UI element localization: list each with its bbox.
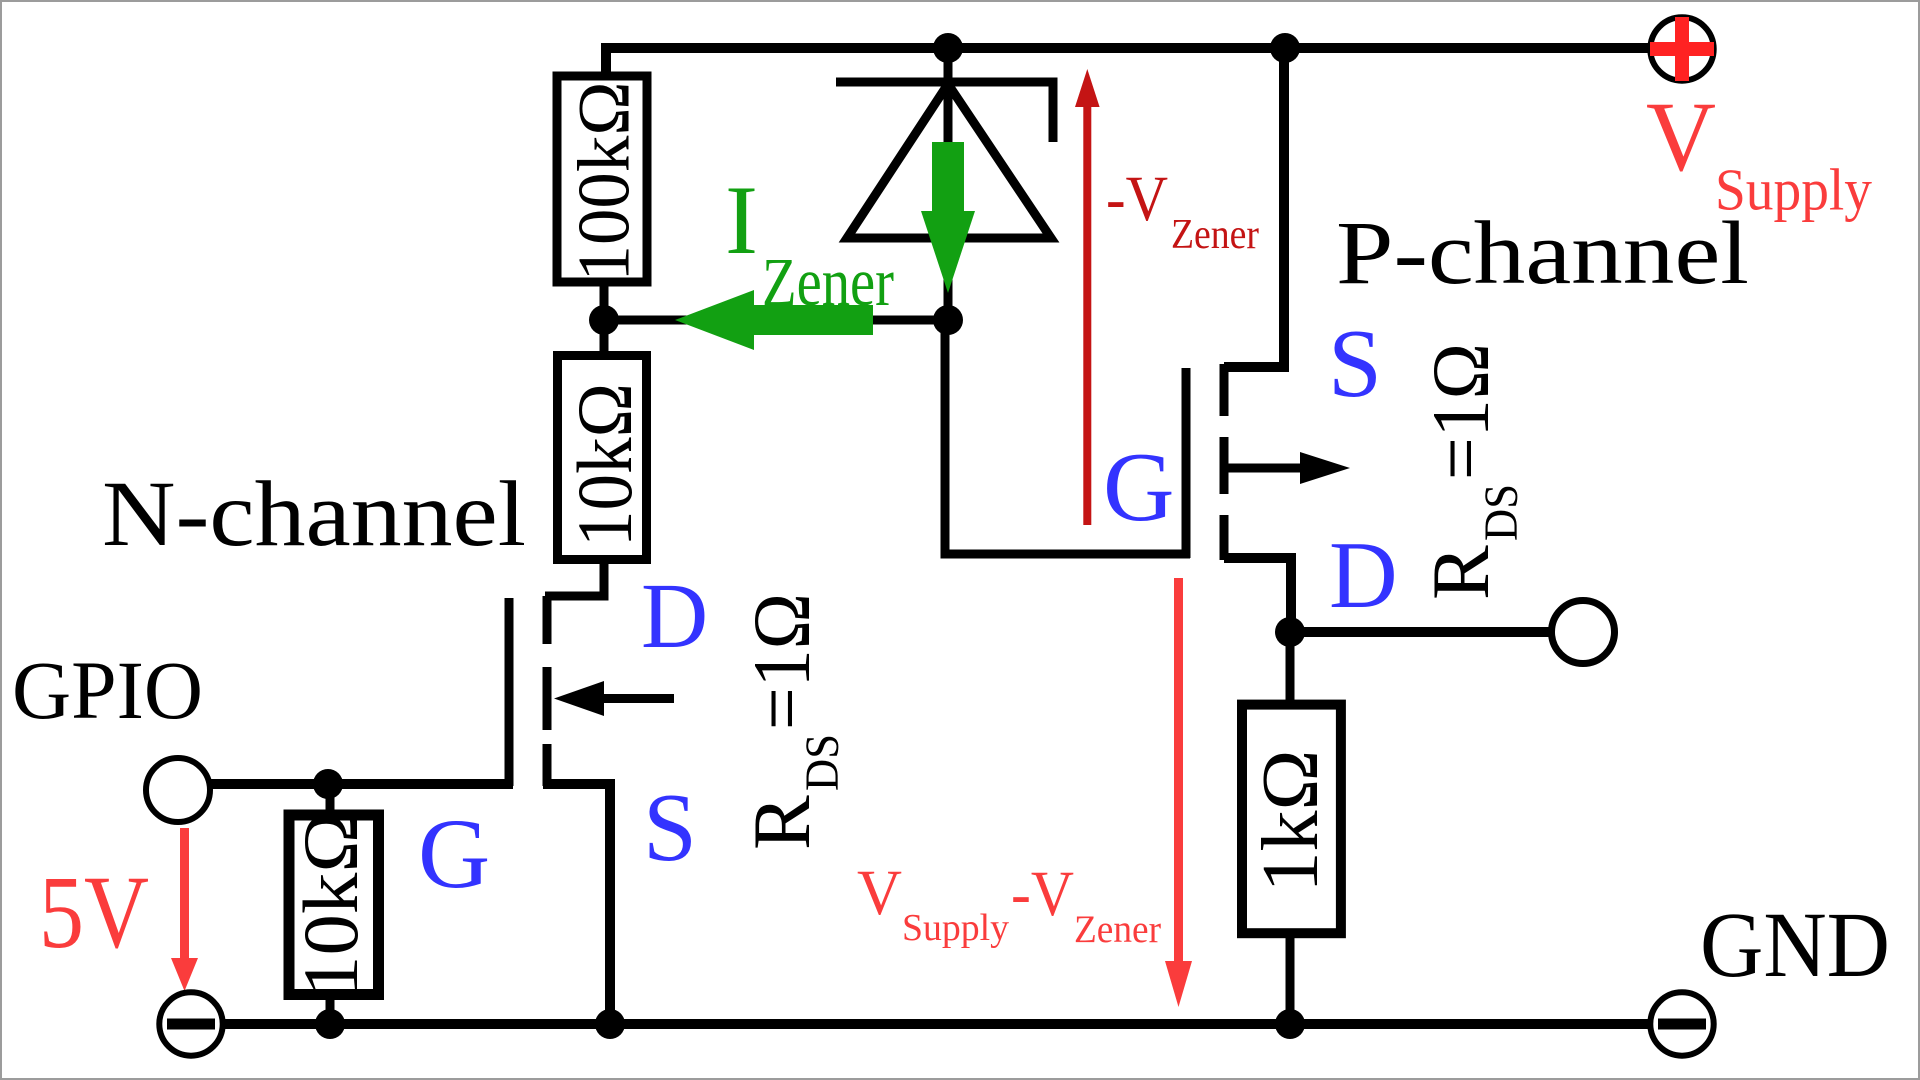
svg-text:5V: 5V xyxy=(39,855,149,970)
svg-text:Supply: Supply xyxy=(1715,157,1872,223)
wire 100k bottom stub xyxy=(600,283,609,352)
arrow -Vzener dark red xyxy=(1075,69,1100,525)
wire zener vertical xyxy=(944,48,953,320)
svg-text:=1Ω: =1Ω xyxy=(736,593,827,730)
arrow Vsupply-Vzener red xyxy=(1165,578,1192,1007)
svg-text:Supply: Supply xyxy=(902,907,1009,949)
svg-text:1kΩ: 1kΩ xyxy=(1247,750,1335,893)
svg-text:10kΩ: 10kΩ xyxy=(561,383,648,547)
node rail left xyxy=(315,1009,345,1039)
transistor P-channel mosfet xyxy=(1186,53,1350,632)
label V Supply xyxy=(1646,81,1872,223)
svg-text:Zener: Zener xyxy=(762,244,894,320)
label RDS=1Ohm of P-mosfet xyxy=(1415,343,1528,600)
label I Zener xyxy=(725,166,894,320)
wire pmos gate xyxy=(945,320,1190,554)
svg-text:GPIO: GPIO xyxy=(12,644,203,736)
label 5V xyxy=(39,855,149,970)
label V Supply - V Zener red xyxy=(857,857,1161,951)
svg-text:P-channel: P-channel xyxy=(1336,204,1749,303)
arrow I zener vertical green xyxy=(921,142,975,293)
terminal minus GND xyxy=(1650,992,1713,1055)
wire top rail xyxy=(606,48,1650,78)
label G of N-mosfet xyxy=(418,798,490,909)
arrow I zener horizontal green xyxy=(675,290,873,350)
node zener bottom junction xyxy=(933,305,963,335)
wire GPIO to gate xyxy=(210,779,513,789)
terminal V supply plus xyxy=(1650,17,1714,81)
wire node to zener node xyxy=(604,316,948,325)
svg-text:R: R xyxy=(736,795,827,850)
svg-text:Zener: Zener xyxy=(1074,908,1161,951)
label RDS=1Ohm of N-mosfet xyxy=(736,593,849,850)
svg-text:I: I xyxy=(725,166,758,275)
node gate junction xyxy=(313,769,343,799)
svg-text:DS: DS xyxy=(1475,484,1528,541)
svg-text:S: S xyxy=(643,774,697,881)
svg-text:=1Ω: =1Ω xyxy=(1415,343,1506,480)
node junction below 100k xyxy=(589,305,619,335)
svg-text:G: G xyxy=(1103,433,1175,542)
label -V Zener dark red xyxy=(1106,163,1259,258)
label D of N-mosfet xyxy=(641,565,708,668)
svg-text:Zener: Zener xyxy=(1171,212,1259,258)
wire bottom rail xyxy=(222,1019,1650,1029)
resistor 100kOhm xyxy=(557,76,647,282)
wire 1k to rail xyxy=(1286,937,1295,1024)
wire output xyxy=(1290,627,1551,637)
resistor 1kOhm xyxy=(1242,705,1341,934)
svg-text:S: S xyxy=(1328,310,1382,417)
svg-text:-V: -V xyxy=(1011,858,1074,930)
label S of N-mosfet xyxy=(643,774,697,881)
resistor 10kOhm left xyxy=(287,811,379,997)
label N-channel xyxy=(102,463,526,566)
svg-text:R: R xyxy=(1415,545,1506,600)
svg-text:D: D xyxy=(1329,522,1398,628)
wire junction to 10k left xyxy=(326,784,335,815)
wire 10k left to ground rail xyxy=(326,995,335,1024)
transistor N-channel mosfet xyxy=(509,596,674,1024)
node top rail zener xyxy=(933,33,963,63)
zener diode xyxy=(836,82,1053,238)
svg-text:N-channel: N-channel xyxy=(102,463,526,566)
svg-text:10kΩ: 10kΩ xyxy=(287,811,374,997)
label G of P-mosfet xyxy=(1103,433,1175,542)
label P-channel xyxy=(1336,204,1749,303)
node top rail pmos source xyxy=(1270,33,1300,63)
label GPIO xyxy=(12,644,203,736)
svg-text:DS: DS xyxy=(796,734,849,791)
svg-text:G: G xyxy=(418,798,490,909)
svg-text:-V: -V xyxy=(1106,163,1168,235)
terminal minus left xyxy=(159,992,222,1055)
node rail source xyxy=(595,1009,625,1039)
svg-text:D: D xyxy=(641,565,708,668)
label GND xyxy=(1700,894,1890,997)
svg-text:GND: GND xyxy=(1700,894,1890,997)
label D of P-mosfet xyxy=(1329,522,1398,628)
wire 10k to N-mosfet drain xyxy=(545,560,604,596)
node pmos drain junction xyxy=(1275,617,1305,647)
terminal output circle xyxy=(1552,601,1615,664)
svg-text:V: V xyxy=(857,857,902,929)
node rail 1k xyxy=(1275,1009,1305,1039)
label S of P-mosfet xyxy=(1328,310,1382,417)
wire pmos drain to 1k xyxy=(1286,632,1295,705)
svg-text:V: V xyxy=(1646,81,1716,192)
terminal GPIO circle xyxy=(146,758,210,822)
resistor 10kOhm middle xyxy=(558,356,649,560)
arrow 5V red xyxy=(171,828,198,991)
svg-text:100kΩ: 100kΩ xyxy=(564,82,646,282)
